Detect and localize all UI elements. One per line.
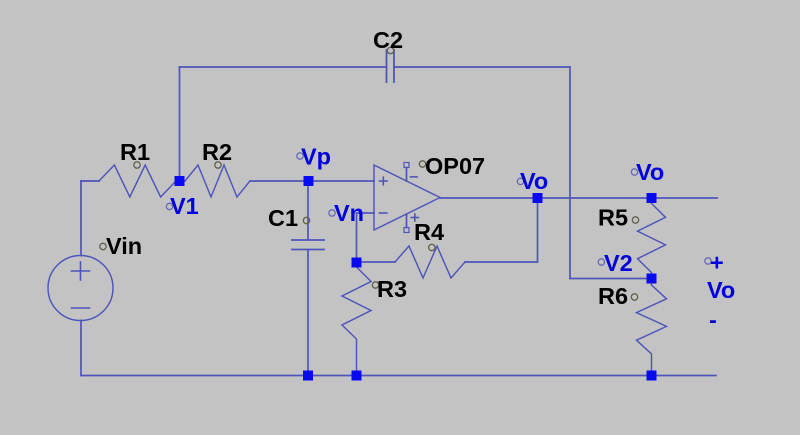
wire R2 to op-amp noninverting input through node Vp <box>250 180 374 182</box>
svg-text:Vin: Vin <box>106 233 142 259</box>
wire V1 stem up to C2 loop <box>179 67 181 181</box>
marker circle node Vo divider <box>631 169 637 175</box>
wire into node V2 <box>570 278 652 280</box>
svg-text:Vp: Vp <box>301 144 331 170</box>
svg-text:V2: V2 <box>604 250 633 276</box>
svg-text:Vo: Vo <box>636 159 664 185</box>
voltage source Vin minus sign <box>72 307 90 309</box>
op-amp top pin minus label <box>411 176 418 178</box>
capacitor C1 plates <box>292 240 324 250</box>
resistor R1 <box>99 165 176 197</box>
resistor R6 <box>637 279 667 376</box>
marker circle OP07 <box>419 161 425 167</box>
wire Vn vertical down to junction <box>356 213 358 263</box>
marker circle node plus Vo <box>705 258 711 264</box>
wire Vn horizontal to inverting input <box>357 212 375 214</box>
junction node V2 <box>647 274 657 284</box>
op-amp top pin stem <box>406 168 408 182</box>
capacitor C2 plates <box>387 50 395 82</box>
wire Vin top lead <box>80 181 82 256</box>
resistor R5 <box>638 198 666 279</box>
marker circle R4 <box>429 244 435 250</box>
svg-text:R4: R4 <box>414 219 444 245</box>
marker circle node Vn <box>329 210 335 216</box>
resistor R3 <box>342 263 371 376</box>
svg-text:R1: R1 <box>120 139 150 165</box>
marker circle node Vo output <box>517 178 523 184</box>
svg-text:R2: R2 <box>202 139 232 165</box>
marker circle node V2 <box>598 259 604 265</box>
op-amp inverting input minus symbol <box>380 212 388 214</box>
junction R6 ground <box>647 371 657 381</box>
svg-text:R3: R3 <box>377 276 407 302</box>
marker circle C2 <box>387 47 393 53</box>
op-amp U1 triangle <box>374 165 440 230</box>
marker circle R5 <box>632 217 638 223</box>
svg-text:Vo: Vo <box>707 277 735 303</box>
svg-text:R5: R5 <box>598 205 628 231</box>
svg-text:C1: C1 <box>268 205 298 231</box>
marker circle R3 <box>372 282 378 288</box>
wire between R1 and R2 at node V1 <box>176 180 185 182</box>
svg-text:Vo: Vo <box>520 168 548 194</box>
junction node Vn feedback <box>352 258 362 268</box>
marker circle node V1 <box>166 203 172 209</box>
op-amp negative supply pin square bottom <box>404 228 409 233</box>
svg-text:+: + <box>710 250 724 276</box>
wire Vp to C1 top <box>307 181 309 240</box>
wire C2 to right corner <box>394 66 570 68</box>
junction node Vp <box>304 176 314 186</box>
svg-text:R6: R6 <box>598 283 628 309</box>
op-amp noninverting input plus symbol <box>380 177 388 185</box>
voltage source Vin plus sign <box>72 262 90 280</box>
svg-text:-: - <box>709 307 717 333</box>
wire R4 right lead <box>465 261 538 263</box>
junction node V1 <box>175 176 185 186</box>
marker circle C1 <box>303 217 309 223</box>
voltage source Vin circle <box>48 256 113 321</box>
wire right vertical C2 loop down <box>569 67 571 279</box>
wire ground rail <box>81 375 716 377</box>
wire input left segment <box>81 180 99 182</box>
marker circle R2 <box>215 162 221 168</box>
op-amp positive supply pin square top <box>404 163 409 168</box>
wire feedback down from Vo <box>537 198 539 262</box>
wire R4 left lead <box>357 261 396 263</box>
op-amp bottom pin plus label <box>411 214 418 221</box>
marker circle R1 <box>134 162 140 168</box>
resistor R2 <box>185 165 250 197</box>
marker circle Vin <box>100 243 106 249</box>
wire Vin bottom lead <box>80 321 82 376</box>
marker circle node Vp <box>297 153 303 159</box>
svg-text:OP07: OP07 <box>425 153 485 179</box>
resistor R4 <box>395 246 465 278</box>
wire top left to C2 <box>180 66 387 68</box>
wire C1 bottom to ground rail <box>307 250 309 376</box>
svg-text:C2: C2 <box>373 27 403 53</box>
junction R3 ground <box>352 371 362 381</box>
svg-text:Vn: Vn <box>334 200 364 226</box>
op-amp bottom pin stem <box>406 214 408 228</box>
svg-text:V1: V1 <box>170 193 199 219</box>
wire op-amp output to right edge through Vo <box>440 197 717 199</box>
junction node Vo at divider top <box>647 193 657 203</box>
marker circle R6 <box>631 294 637 300</box>
junction C1 ground <box>303 371 313 381</box>
junction node Vo at output <box>533 193 543 203</box>
